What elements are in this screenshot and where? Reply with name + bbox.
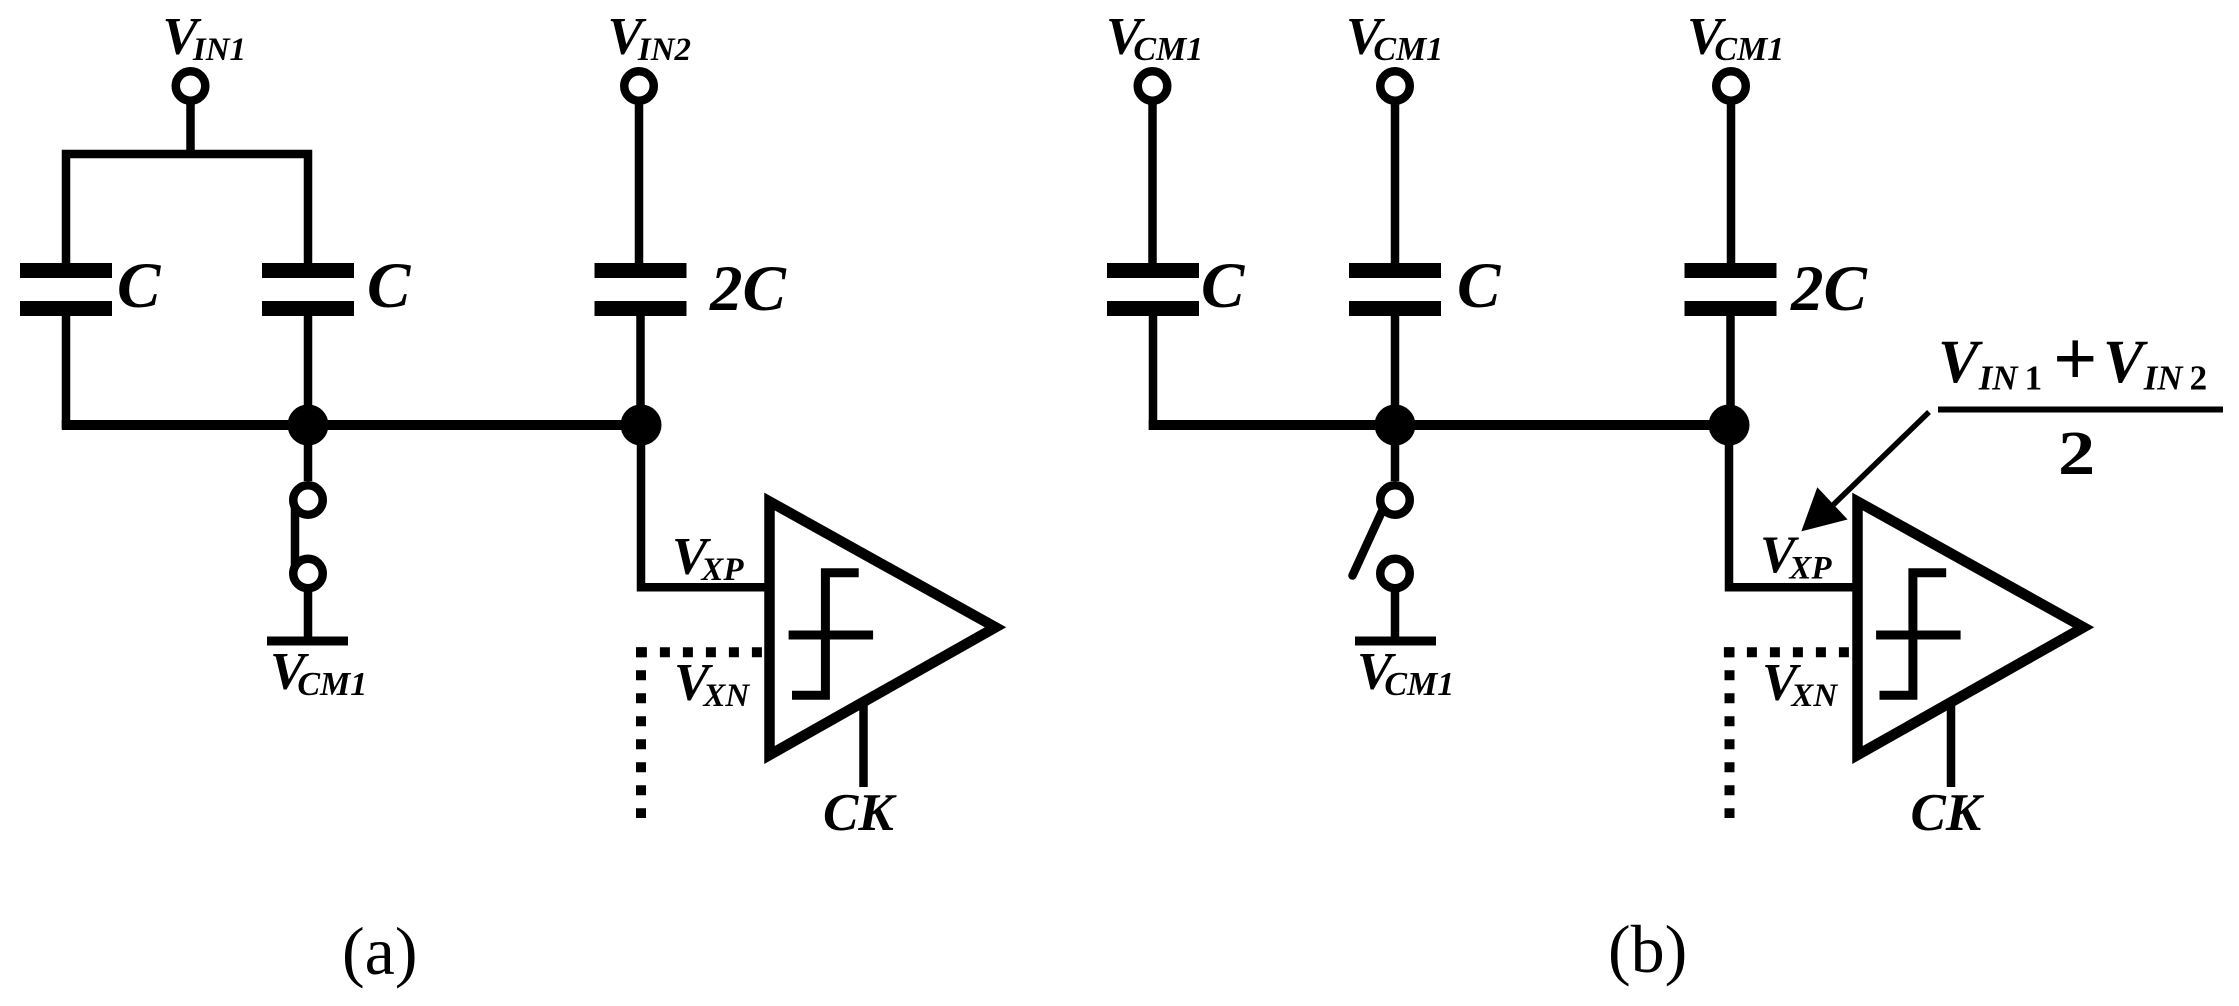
svg-text:C: C xyxy=(367,250,411,322)
svg-text:C: C xyxy=(1457,250,1501,322)
svg-text:CK: CK xyxy=(1911,784,1985,842)
svg-text:(b): (b) xyxy=(1608,911,1687,987)
svg-text:(a): (a) xyxy=(342,913,417,989)
svg-text:2: 2 xyxy=(2058,419,2095,488)
svg-text:C: C xyxy=(117,250,161,322)
svg-text:2C: 2C xyxy=(709,253,787,325)
svg-text:CK: CK xyxy=(823,784,897,842)
svg-text:+: + xyxy=(2053,315,2097,402)
svg-text:2C: 2C xyxy=(1790,253,1868,325)
svg-text:C: C xyxy=(1201,250,1245,322)
